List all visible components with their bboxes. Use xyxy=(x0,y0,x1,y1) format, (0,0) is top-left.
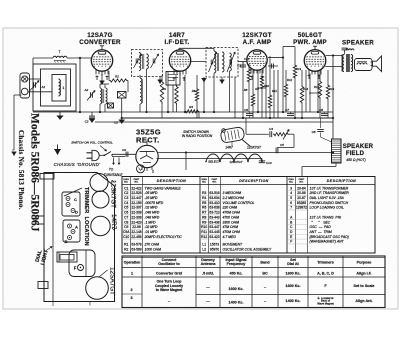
V1 cathode ground xyxy=(100,75,105,84)
resistor R7 vertical xyxy=(195,75,198,118)
svg-text:Align I.F.: Align I.F. xyxy=(356,272,371,276)
svg-text:L1: L1 xyxy=(202,242,206,246)
svg-text:C10: C10 xyxy=(266,161,272,165)
svg-text:C8: C8 xyxy=(124,220,128,224)
svg-text:C8: C8 xyxy=(312,130,316,134)
capacitor C8 bus xyxy=(319,108,328,115)
oscillator padder trimmer xyxy=(84,88,96,101)
oscillator padding coil L3 xyxy=(140,75,142,112)
svg-text:R8: R8 xyxy=(244,88,248,92)
wire x274 xyxy=(273,70,275,118)
antenna terminal strip xyxy=(20,73,30,98)
svg-text:1: 1 xyxy=(63,86,65,90)
label 35Z5G RECT xyxy=(136,128,161,145)
svg-text:12SA7GT: 12SA7GT xyxy=(229,160,243,164)
label R16 xyxy=(329,87,335,91)
svg-text:OSCILLATOR COIL ASSEMBLY: OSCILLATOR COIL ASSEMBLY xyxy=(223,248,272,252)
wire x310 V4 pin xyxy=(309,74,311,113)
svg-text:R3: R3 xyxy=(202,191,206,195)
svg-text:1ST I.F. TRANSFORMER: 1ST I.F. TRANSFORMER xyxy=(310,186,349,190)
V4 plate stub xyxy=(313,46,317,50)
svg-text:R6: R6 xyxy=(202,206,206,210)
svg-text:12SK7GT: 12SK7GT xyxy=(247,146,262,150)
resistor R8 xyxy=(247,64,250,112)
parts table bottom rows xyxy=(124,242,272,251)
svg-text:63-447: 63-447 xyxy=(209,225,219,229)
svg-text:220 OHM: 220 OHM xyxy=(222,206,238,210)
svg-text:(BROADCAST OSC PAD): (BROADCAST OSC PAD) xyxy=(310,235,349,239)
2nd IF transformer T2 shield xyxy=(206,48,238,78)
loop antenna inner turn xyxy=(52,75,66,102)
label chassis 12SA7GT xyxy=(99,267,116,295)
label select xyxy=(208,160,221,164)
svg-text:4700 OHM: 4700 OHM xyxy=(223,215,240,219)
svg-text:470M OHM: 470M OHM xyxy=(223,211,241,215)
svg-text:DIAG: DIAG xyxy=(124,178,130,181)
svg-text:PHONO-RADIO SWITCH: PHONO-RADIO SWITCH xyxy=(310,201,349,205)
turntable drop wires xyxy=(113,158,120,165)
selector switch wafer xyxy=(205,154,263,162)
svg-text:47M OHM: 47M OHM xyxy=(223,225,239,229)
alignment row 2 xyxy=(130,280,374,304)
label R13 xyxy=(296,67,302,71)
svg-text:FIELD: FIELD xyxy=(346,151,365,157)
svg-text:A.F. AMP: A.F. AMP xyxy=(243,39,272,46)
svg-text:.01 MFD: .01 MFD xyxy=(145,230,159,234)
svg-text:MOVEMENT: MOVEMENT xyxy=(223,242,244,246)
svg-text:″ ″ SEC: ″ ″ SEC xyxy=(310,220,331,224)
loop antenna coil L1 xyxy=(59,79,65,96)
svg-text:C9: C9 xyxy=(124,225,128,229)
svg-text:R3: R3 xyxy=(162,87,166,91)
svg-text:R12: R12 xyxy=(201,235,207,239)
svg-text:Trimmers: Trimmers xyxy=(317,261,334,265)
wire x306 xyxy=(305,70,307,112)
svg-text:.048 MFD: .048 MFD xyxy=(145,215,160,219)
chassis outline xyxy=(44,173,115,307)
wire x235 xyxy=(234,77,236,118)
wire T2 down left xyxy=(213,73,215,113)
svg-text:.00075 MFD: .00075 MFD xyxy=(145,201,164,205)
svg-text:IN RADIO POSITION: IN RADIO POSITION xyxy=(182,134,213,138)
svg-text:R5: R5 xyxy=(202,201,206,205)
svg-text:Set to Scale: Set to Scale xyxy=(354,284,375,288)
loop antenna middle turn xyxy=(41,69,71,106)
svg-text:.048 MFD: .048 MFD xyxy=(145,211,160,215)
ground under T2 xyxy=(220,77,225,83)
dial light housing xyxy=(57,252,77,262)
ground under T1 xyxy=(158,77,163,84)
chassis ground symbol xyxy=(54,145,61,155)
label SPEAKER xyxy=(342,40,374,47)
AC cord wires xyxy=(112,154,136,156)
label SPEAKER FIELD xyxy=(343,144,374,162)
wire x283 xyxy=(282,58,284,113)
svg-text:VOLUME CONTROL: VOLUME CONTROL xyxy=(223,201,255,205)
svg-text:C8: C8 xyxy=(319,108,323,112)
svg-text:NO.: NO. xyxy=(289,182,293,184)
oscillator grid capacitor box xyxy=(118,92,127,99)
svg-text:2ND I.F. TRANSFORMER: 2ND I.F. TRANSFORMER xyxy=(309,191,350,195)
svg-text:20-87: 20-87 xyxy=(297,196,306,200)
svg-text:R6: R6 xyxy=(192,89,196,93)
svg-text:7: 7 xyxy=(59,50,61,54)
svg-text:C2: C2 xyxy=(85,120,89,124)
svg-text:22-308: 22-308 xyxy=(131,215,141,219)
wire loop top to coil xyxy=(33,58,53,64)
tube V2 14R7 xyxy=(169,50,190,75)
svg-text:DESCRIPTION: DESCRIPTION xyxy=(157,179,186,183)
capacitor C8b xyxy=(312,118,332,142)
svg-text:Converter Grid: Converter Grid xyxy=(156,272,183,276)
V5 pins xyxy=(142,167,152,172)
V2 heater marks xyxy=(173,77,186,81)
svg-text:Operation: Operation xyxy=(124,261,141,265)
svg-text:A, B, C, D: A, B, C, D xyxy=(317,272,334,276)
label R8 xyxy=(244,88,248,92)
trimmer capacitor A1 xyxy=(30,81,46,91)
voice coil box xyxy=(355,59,373,71)
svg-text:4: 4 xyxy=(290,191,292,195)
svg-text:Purpose: Purpose xyxy=(357,261,372,265)
ground at loop bottom xyxy=(57,112,64,119)
loading coil 7 xyxy=(53,50,67,63)
svg-text:470M OHM: 470M OHM xyxy=(223,230,241,234)
svg-text:R16: R16 xyxy=(329,87,335,91)
svg-text:129872: 129872 xyxy=(296,206,307,210)
resistor R4 xyxy=(185,75,199,118)
wire field bottom return xyxy=(302,163,336,176)
svg-text:63-443: 63-443 xyxy=(209,215,219,219)
tube V1 12SA7G xyxy=(91,50,112,75)
svg-text:R8: R8 xyxy=(202,215,206,219)
wire branch x80 down xyxy=(79,58,81,112)
svg-text:RECT.: RECT. xyxy=(136,136,160,145)
capacitor C5 xyxy=(276,143,294,153)
svg-text:D: D xyxy=(75,210,78,215)
svg-text:20-84: 20-84 xyxy=(297,186,306,190)
svg-text:R15: R15 xyxy=(314,85,320,89)
wire terminal to loop lower xyxy=(28,91,52,93)
coupling capacitor C3 xyxy=(237,62,246,68)
wire coil to converter grid xyxy=(67,57,91,59)
svg-text:12SA7GT: 12SA7GT xyxy=(109,267,116,295)
wire V2 to T2 xyxy=(190,61,206,63)
label chassis 12SK7GT xyxy=(110,180,117,208)
chassis tube socket 50L6GT xyxy=(92,191,109,208)
svg-text:C10: C10 xyxy=(123,235,129,239)
svg-text:95970: 95970 xyxy=(210,248,219,252)
capacitor C7 xyxy=(285,108,294,115)
wire V3 plate link xyxy=(268,56,284,58)
svg-text:3: 3 xyxy=(290,186,292,190)
svg-text:22-526: 22-526 xyxy=(131,191,141,195)
svg-text:63-578: 63-578 xyxy=(131,242,141,246)
svg-text:450 Kc.: 450 Kc. xyxy=(230,272,243,276)
svg-text:63-438: 63-438 xyxy=(209,220,219,224)
svg-text:CONVERTER: CONVERTER xyxy=(79,39,121,46)
chassis left tab upper xyxy=(36,216,44,224)
svg-text:C2: C2 xyxy=(114,121,118,125)
label 12SK7GT contact xyxy=(247,146,262,150)
svg-text:22-423: 22-423 xyxy=(131,220,141,224)
label 14R7 I.F-DET xyxy=(164,32,189,46)
svg-text:ANT — TRIM: ANT — TRIM xyxy=(309,230,332,234)
svg-text:22-456: 22-456 xyxy=(131,235,141,239)
capacitor C2a xyxy=(85,112,95,124)
label 12SK7GT A.F.AMP xyxy=(242,32,272,46)
svg-text:1ST I.F. TRANS PRI: 1ST I.F. TRANS PRI xyxy=(310,215,342,219)
svg-text:63-589: 63-589 xyxy=(131,248,141,252)
svg-text:2.2 MEGOHM: 2.2 MEGOHM xyxy=(222,196,244,200)
svg-text:Dial At: Dial At xyxy=(287,262,299,266)
label switch shown in radio position xyxy=(182,130,213,138)
T2 primary winding xyxy=(214,51,216,73)
resistor R11 xyxy=(268,56,271,118)
output transformer T3 primary xyxy=(342,55,344,72)
wire V5 top xyxy=(146,141,148,146)
svg-text:5: 5 xyxy=(290,196,292,200)
svg-text:Wave Magnet: Wave Magnet xyxy=(317,301,334,305)
svg-text:R4: R4 xyxy=(189,105,193,109)
wire AF link y88 xyxy=(257,87,266,89)
svg-text:22-307: 22-307 xyxy=(131,206,141,210)
wire V2 box down xyxy=(172,85,174,112)
resistor R15 xyxy=(318,70,321,118)
svg-text:63-638: 63-638 xyxy=(209,206,219,210)
svg-text:Chassis No. 5813 Phono.: Chassis No. 5813 Phono. xyxy=(17,130,25,210)
svg-text:2: 2 xyxy=(152,170,154,174)
svg-text:DIAL LIGHT 6.3V .15A: DIAL LIGHT 6.3V .15A xyxy=(310,196,345,200)
svg-text:R11: R11 xyxy=(272,89,277,93)
capacitor C10 xyxy=(259,159,272,166)
svg-text:C: C xyxy=(74,197,77,202)
svg-text:1600 Kc.: 1600 Kc. xyxy=(229,287,244,291)
chassis tube socket 14R7 xyxy=(91,216,110,235)
T1 secondary trimmer xyxy=(151,54,159,68)
tube V4 50L6GT xyxy=(304,50,326,75)
resistor R13 xyxy=(293,64,296,118)
parts table rows R-section xyxy=(200,191,254,239)
label to turntable xyxy=(104,168,124,178)
junction node at x80 xyxy=(79,57,81,59)
svg-text:PART: PART xyxy=(212,178,218,181)
loop antenna outer turn xyxy=(33,64,76,111)
svg-text:—: — xyxy=(206,299,210,303)
wire x204 xyxy=(202,77,207,112)
svg-text:22-308: 22-308 xyxy=(131,211,141,215)
resistor R9 xyxy=(251,70,254,118)
label R6 xyxy=(192,89,196,93)
trimmer XX box xyxy=(108,103,114,108)
label R10 xyxy=(264,84,270,88)
V2 diode load box xyxy=(166,72,180,86)
junction dots on buses xyxy=(79,111,334,119)
svg-text:22-98: 22-98 xyxy=(132,225,141,229)
svg-text:TURNTABLE: TURNTABLE xyxy=(104,173,124,177)
svg-text:C2: C2 xyxy=(124,191,128,195)
svg-text:A: A xyxy=(75,225,78,230)
tube V3 12SK7GT xyxy=(247,50,267,74)
wire T2 to V3 grid xyxy=(238,61,246,63)
svg-text:SPEAKER: SPEAKER xyxy=(342,40,374,47)
svg-text:PART: PART xyxy=(299,178,305,181)
svg-text:2: 2 xyxy=(130,288,132,292)
wire AF link y66 xyxy=(268,64,278,69)
T1 secondary winding xyxy=(143,54,149,69)
T3 top lead capacitor xyxy=(342,48,355,54)
trimmer block A-B xyxy=(63,220,80,244)
wire bus to field xyxy=(332,118,334,139)
label chassis ground xyxy=(54,162,101,167)
wire osc coils to bus xyxy=(100,84,109,112)
phono pickup xyxy=(220,127,250,147)
wire V5 plate right upper xyxy=(158,151,334,153)
svg-text:50L6GT: 50L6GT xyxy=(298,32,323,39)
svg-text:63-445: 63-445 xyxy=(209,230,219,234)
svg-text:C5: C5 xyxy=(124,206,128,210)
capacitor C6 xyxy=(244,108,253,118)
wire terminal to loop upper xyxy=(28,78,41,80)
label dial light xyxy=(34,247,52,266)
svg-text:DIAG: DIAG xyxy=(202,178,208,181)
svg-text:A2: A2 xyxy=(84,88,89,92)
label 14R7 contact xyxy=(225,146,233,150)
svg-text:NO.: NO. xyxy=(124,182,128,184)
alignment row 3 xyxy=(130,296,372,306)
svg-text:OSC — PAD: OSC — PAD xyxy=(310,225,332,229)
svg-text:22-447: 22-447 xyxy=(131,196,141,200)
svg-text:DESCRIPTION: DESCRIPTION xyxy=(327,179,356,183)
svg-text:C7: C7 xyxy=(285,108,289,112)
resistor R10 xyxy=(260,70,263,118)
dial lamp xyxy=(137,165,155,174)
svg-text:.05 MFD: .05 MFD xyxy=(145,191,159,195)
parts table rows misc-section xyxy=(287,186,349,244)
svg-text:C9A: C9A xyxy=(123,230,130,234)
label R9 xyxy=(255,87,259,91)
speaker horn xyxy=(371,56,382,72)
wire output link y93 xyxy=(309,92,321,94)
label switch on volume control xyxy=(71,141,113,152)
wire osc box down with ground xyxy=(114,98,125,125)
svg-text:R10: R10 xyxy=(201,225,207,229)
T2 primary trimmer xyxy=(209,52,217,72)
svg-text:22-422: 22-422 xyxy=(131,186,141,190)
svg-text:B: B xyxy=(65,239,68,244)
svg-text:F: F xyxy=(74,266,77,271)
output transformer T3 secondary xyxy=(346,54,352,72)
svg-text:.02 MFD: .02 MFD xyxy=(145,206,159,210)
resistor R12 xyxy=(284,70,287,112)
svg-text:CHASSIS ‘GROUND’: CHASSIS ‘GROUND’ xyxy=(54,162,101,167)
parts table headers xyxy=(124,178,357,184)
svg-text:1400 Kc.: 1400 Kc. xyxy=(229,301,244,305)
svg-text:63-516: 63-516 xyxy=(209,191,219,195)
resistor R16 xyxy=(326,70,329,118)
oscillator coil L2 xyxy=(100,88,107,104)
svg-text:3: 3 xyxy=(130,296,132,300)
V1 plate stub xyxy=(100,46,104,50)
svg-text:R4: R4 xyxy=(202,196,206,200)
V1 heater marks xyxy=(96,74,109,80)
svg-text:.5 mfd.: .5 mfd. xyxy=(202,272,214,276)
wire x258 V3 cathode xyxy=(257,71,259,113)
label R14 xyxy=(303,87,309,91)
svg-text:Align Ant.: Align Ant. xyxy=(355,299,372,303)
svg-text:TWO GANG VARIABLE: TWO GANG VARIABLE xyxy=(145,186,182,190)
svg-text:63-604: 63-604 xyxy=(209,196,219,200)
svg-text:R13: R13 xyxy=(296,67,302,71)
svg-text:NO.: NO. xyxy=(213,182,217,184)
wire left return xyxy=(12,95,22,155)
T1 primary winding xyxy=(139,53,141,71)
resistor R14 xyxy=(300,70,303,118)
svg-text:20-86: 20-86 xyxy=(297,191,306,195)
label trimmer location xyxy=(83,187,89,246)
volume control R5 xyxy=(273,130,294,148)
svg-text:R9: R9 xyxy=(202,220,206,224)
svg-text:TRIMMER LOCATION: TRIMMER LOCATION xyxy=(83,187,89,246)
wire R1 down xyxy=(109,71,128,92)
svg-text:C3: C3 xyxy=(237,64,241,68)
wire T2 down right xyxy=(229,71,231,112)
label R3 xyxy=(162,87,166,91)
svg-text:C6: C6 xyxy=(124,211,128,215)
svg-text:TO: TO xyxy=(109,168,114,172)
svg-text:SPEAKER: SPEAKER xyxy=(343,144,374,150)
svg-text:.1 MFD: .1 MFD xyxy=(145,220,157,224)
wire V5 right lower xyxy=(157,158,263,160)
svg-text:C7: C7 xyxy=(124,215,128,219)
svg-text:C1: C1 xyxy=(124,186,128,190)
V3 heater marks xyxy=(251,76,264,81)
svg-text:Models 5R086—5R086J: Models 5R086—5R086J xyxy=(29,113,41,232)
svg-text:63-423: 63-423 xyxy=(209,235,219,239)
alignment row 1 xyxy=(131,272,372,276)
svg-text:Antenna: Antenna xyxy=(201,262,217,266)
chassis inner diagonal xyxy=(64,188,82,196)
wire x243 xyxy=(242,62,244,118)
svg-text:14R7: 14R7 xyxy=(169,32,185,39)
svg-text:1600 Kc.: 1600 Kc. xyxy=(286,272,301,276)
svg-text:1000 OHM: 1000 OHM xyxy=(145,248,162,252)
svg-text:R1: R1 xyxy=(124,242,128,246)
power switch xyxy=(100,152,113,157)
svg-text:SELECT: SELECT xyxy=(208,160,221,164)
svg-text:R1: R1 xyxy=(115,75,119,79)
svg-text:3300 OHM: 3300 OHM xyxy=(223,220,240,224)
svg-text:I.F·DET.: I.F·DET. xyxy=(164,39,189,46)
wire x186 drop xyxy=(185,151,187,170)
svg-text:R2: R2 xyxy=(124,248,128,252)
svg-text:C9: C9 xyxy=(122,148,126,152)
svg-text:R10: R10 xyxy=(264,84,270,88)
svg-text:1: 1 xyxy=(131,272,133,276)
svg-text:BC: BC xyxy=(262,272,268,276)
label 12SA7G CONVERTER xyxy=(79,32,121,46)
svg-text:Band: Band xyxy=(260,261,270,265)
wire V4 plate to T3 xyxy=(325,54,342,66)
label chassis 14R7 xyxy=(110,214,117,231)
wire x318 xyxy=(317,70,319,112)
svg-text:1600 Kc.: 1600 Kc. xyxy=(286,284,301,288)
T2 tertiary winding xyxy=(230,53,232,71)
label 50L6GT PWR AMP xyxy=(293,32,327,46)
capacitor C4 xyxy=(269,127,273,137)
title Chassis No. 5813 Phono xyxy=(17,130,25,210)
T1 primary trimmer xyxy=(134,54,142,68)
